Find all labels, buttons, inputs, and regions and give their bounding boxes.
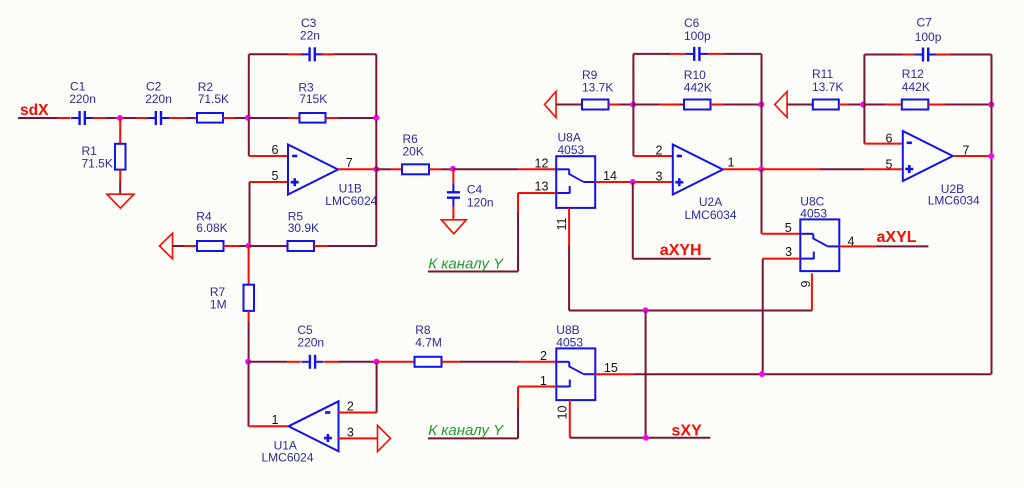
svg-text:14: 14 — [603, 169, 617, 183]
port arrow left of R11 — [775, 92, 787, 118]
wire R7 down to node F — [248, 311, 250, 322]
wire C1 to node A — [93, 117, 106, 119]
svg-text:10: 10 — [556, 406, 570, 420]
svg-text:2: 2 — [656, 144, 663, 158]
wire R10 to node J — [711, 104, 725, 106]
node K junction U2A output/U8C pin5 branch — [758, 166, 764, 172]
wire net sdX from port to C1 — [18, 117, 58, 119]
wire R8 to U8B pin 2 — [442, 361, 461, 363]
wire U1B output pin 7 — [338, 168, 376, 170]
wire node E to R6 — [376, 168, 391, 170]
svg-text:4053: 4053 — [558, 143, 585, 157]
resistor R4 — [197, 241, 224, 251]
wire node D down to R7 — [248, 246, 250, 285]
wire U8C pin 9 down — [811, 273, 813, 310]
wire C4 to ground — [452, 206, 454, 220]
svg-text:LMC6024: LMC6024 — [262, 451, 314, 465]
resistor R7 — [244, 285, 255, 311]
svg-text:3: 3 — [347, 425, 354, 439]
svg-text:К каналу Y: К каналу Y — [428, 422, 504, 439]
wire node B down to pin 6 — [248, 120, 250, 157]
svg-text:5: 5 — [886, 158, 893, 172]
op-amp U2A triangle — [673, 145, 723, 195]
capacitor C5 — [309, 355, 311, 369]
port arrow left of R4 — [160, 233, 173, 259]
wire C5 to node P — [324, 361, 339, 363]
svg-text:71.5K: 71.5K — [198, 92, 229, 106]
wire node C to node E to R5 vertical — [375, 120, 377, 247]
node P junction C5/R8 line/U1A pin2 — [374, 359, 380, 365]
wire node F to C5 — [248, 361, 287, 363]
wire node K down to U8C pin 5 — [761, 169, 763, 234]
capacitor C7 — [922, 48, 924, 62]
svg-text:sXY: sXY — [672, 423, 703, 440]
svg-text:1M: 1M — [210, 297, 227, 311]
resistor R10 — [684, 100, 711, 110]
resistor R2 — [197, 113, 223, 123]
port arrow right of U1A pin 3 — [378, 425, 391, 451]
U1A plus input mark — [324, 437, 332, 440]
wire node L down to sXY line — [645, 311, 647, 438]
node Q junction 15 line / U8C pin3 branch — [759, 371, 765, 377]
port arrow left of R9 — [545, 92, 557, 118]
wire node I to R10 — [633, 104, 659, 106]
wire C3 loop top right — [322, 53, 335, 55]
svg-text:aXYH: aXYH — [660, 242, 702, 259]
capacitor C6 — [693, 47, 695, 61]
svg-text:7: 7 — [963, 144, 970, 158]
wire node B to R3 — [248, 117, 289, 119]
resistor R8 — [415, 357, 442, 367]
svg-text:220n: 220n — [297, 335, 324, 349]
wire sXY line — [570, 437, 711, 439]
wire arrow to R4 — [173, 245, 185, 247]
svg-text:71.5K: 71.5K — [82, 156, 113, 170]
wire R5 to output vertical — [314, 245, 328, 247]
node G junction R6/C4 — [450, 166, 456, 172]
node I junction R9/R10/C6 left — [630, 102, 636, 108]
wire node A to C2 — [124, 117, 136, 119]
node H junction pin14/aXYH — [630, 179, 636, 185]
wire U8A pin 13 to channel Y branch — [518, 192, 556, 194]
wire C6 loop left vertical — [632, 54, 634, 156]
wire right side of C3 loop down to node C — [375, 54, 377, 116]
wire U8A pin 11 down — [568, 208, 570, 246]
svg-text:aXYL: aXYL — [877, 229, 917, 246]
resistor R5 — [288, 241, 315, 251]
wire U8C pin 4 to aXYL — [839, 245, 876, 247]
wire U1A pin 3 to port arrow — [339, 437, 378, 439]
svg-text:715K: 715K — [299, 92, 327, 106]
wire R1 to ground — [119, 170, 121, 182]
svg-text:12: 12 — [535, 157, 549, 171]
svg-text:4053: 4053 — [556, 335, 583, 349]
svg-text:220n: 220n — [145, 92, 172, 106]
wire U8A pin 14 to U2A pin 3 — [595, 181, 673, 183]
wire C7 loop top right — [936, 54, 950, 56]
svg-text:13.7K: 13.7K — [582, 80, 613, 94]
svg-text:3: 3 — [785, 245, 792, 259]
svg-text:1: 1 — [728, 156, 735, 170]
wire U1A pin 2 up to node P — [339, 412, 377, 414]
resistor R1 — [115, 144, 126, 170]
node N junction R12/C7 right — [988, 102, 994, 108]
wire into U2A pin 2 — [633, 155, 672, 157]
svg-text:442K: 442K — [902, 80, 930, 94]
ground below C4 — [441, 220, 466, 234]
resistor R6 — [402, 164, 429, 174]
node E junction U1B output — [373, 166, 379, 172]
node B junction R2/R3/C3/pin6 — [245, 115, 251, 121]
wire U8B pin 10 down — [569, 400, 571, 437]
wire node H down to aXYH — [632, 182, 634, 259]
op-amp U2B triangle — [903, 131, 953, 181]
resistor R11 — [813, 100, 839, 110]
wire arrow to R9 — [556, 104, 582, 106]
wire C6 loop top left — [633, 53, 670, 55]
U1B minus input mark — [292, 155, 297, 158]
U1A minus input mark — [325, 411, 330, 414]
op-amp U1A triangle mirrored — [289, 401, 339, 451]
U2A plus input mark — [675, 181, 683, 184]
svg-text:R12: R12 — [902, 67, 924, 81]
wire node K to U2B pin 5 — [762, 168, 821, 170]
svg-text:U2A: U2A — [699, 195, 722, 209]
wire to net label K kanalu Y lower — [428, 437, 518, 439]
svg-text:6.08K: 6.08K — [196, 221, 227, 235]
wire U2A output pin 1 — [723, 168, 762, 170]
svg-text:22n: 22n — [300, 29, 320, 43]
svg-text:11: 11 — [555, 217, 569, 230]
wire node B up left side of C3 loop — [248, 54, 250, 116]
capacitor C2 — [155, 111, 157, 125]
U2B minus input mark — [907, 142, 912, 145]
wire C7 loop top left — [864, 54, 903, 56]
capacitor C4 — [447, 191, 460, 193]
svg-text:4.7M: 4.7M — [415, 335, 442, 349]
resistor R12 — [902, 100, 929, 110]
svg-text:442K: 442K — [684, 80, 712, 94]
svg-text:5: 5 — [785, 221, 792, 235]
wire U1A output pin 1 to node F vertical — [248, 363, 250, 426]
wire to net label K kanalu Y upper — [428, 271, 518, 273]
node J junction R10/C6 right/U2A out — [758, 102, 764, 108]
ground below R1 — [107, 194, 134, 208]
svg-text:1: 1 — [272, 413, 279, 427]
svg-text:sdX: sdX — [20, 102, 49, 119]
wire U1B pin 5 down to node D — [249, 182, 251, 246]
svg-text:3: 3 — [656, 170, 663, 184]
svg-text:220n: 220n — [69, 92, 96, 106]
wire R11 to node M — [839, 104, 849, 106]
svg-text:5: 5 — [272, 169, 279, 183]
wire C6 loop top right — [708, 53, 725, 55]
resistor R3 — [300, 113, 326, 123]
svg-text:100p: 100p — [684, 29, 711, 43]
wire C6 loop right vertical down to U2A output — [761, 54, 763, 169]
svg-text:13.7K: 13.7K — [812, 80, 843, 94]
svg-text:2: 2 — [347, 400, 354, 414]
svg-text:20K: 20K — [403, 144, 424, 158]
svg-text:7: 7 — [346, 156, 353, 170]
wire U8B pin 1 to channel Y branch — [518, 386, 556, 388]
svg-text:6: 6 — [886, 132, 893, 146]
node A junction C1/C2/R1 — [117, 115, 123, 121]
U2A minus input mark — [677, 155, 682, 158]
wire R6 to node G — [429, 168, 441, 170]
node M junction R11/R12/C7 left — [860, 102, 866, 108]
wire R3 to node C — [326, 117, 339, 119]
op-amp U1B triangle — [288, 145, 338, 195]
svg-text:30.9K: 30.9K — [288, 221, 319, 235]
svg-text:120n: 120n — [467, 196, 494, 210]
wire node G down to C4 — [452, 169, 454, 184]
svg-text:LMC6034: LMC6034 — [685, 208, 737, 222]
svg-text:К каналу Y: К каналу Y — [428, 256, 504, 273]
node L junction bottom bus — [643, 307, 649, 313]
wire R9 to node I — [609, 104, 621, 106]
node F junction R7/C5/U1A pin1 — [245, 359, 251, 365]
wire R12 to node N — [928, 104, 945, 106]
svg-text:C7: C7 — [917, 16, 933, 30]
svg-text:R11: R11 — [812, 67, 833, 81]
wire U2B output pin 7 — [953, 155, 992, 157]
svg-text:C6: C6 — [684, 16, 700, 30]
wire into U1B pin 5 — [250, 181, 289, 183]
node D junction R4/R5/pin5/R7 — [246, 243, 252, 249]
node R junction sXY line — [643, 435, 649, 441]
svg-text:4053: 4053 — [800, 206, 827, 220]
wire into U2B pin 6 — [864, 143, 902, 145]
svg-text:LMC6024: LMC6024 — [325, 194, 377, 208]
switch U8A 4053 box — [556, 156, 595, 208]
wire node A down to R1 — [119, 118, 121, 144]
wire arrow to R11 — [787, 104, 813, 106]
U2B plus input mark — [905, 168, 913, 171]
switch U8C 4053 box — [800, 219, 839, 271]
resistor R9 — [582, 100, 609, 110]
wire node P to R8 — [377, 361, 415, 363]
wire node D to R5 — [249, 245, 288, 247]
switch U8B 4053 box — [556, 348, 595, 400]
wire U8B pin 15 output — [595, 373, 634, 375]
svg-text:15: 15 — [604, 361, 618, 375]
wire C7 loop right vertical down to 15 line — [991, 55, 993, 375]
svg-text:6: 6 — [272, 143, 279, 157]
svg-text:LMC6034: LMC6034 — [928, 194, 980, 208]
wire into U1B pin 6 — [249, 155, 288, 157]
wire C7 loop left vertical — [863, 55, 865, 144]
wire R4 to node D — [224, 245, 240, 247]
U1B plus input mark — [291, 181, 299, 184]
wire bottom bus pin11 to pin9 — [569, 310, 812, 312]
wire node G to U8A pin 12 — [453, 168, 519, 170]
svg-text:C4: C4 — [467, 183, 483, 197]
wire R2 to node B — [223, 117, 235, 119]
svg-text:2: 2 — [540, 349, 547, 363]
svg-text:13: 13 — [535, 180, 549, 194]
node C junction R3/C3/output — [373, 115, 379, 121]
svg-text:100p: 100p — [915, 30, 942, 44]
node O junction U2B output — [988, 153, 994, 159]
wire node M to R12 — [863, 104, 885, 106]
wire under aXYH label — [633, 258, 711, 260]
wire U8C pin 3 branch — [763, 258, 801, 260]
capacitor C1 — [78, 111, 80, 125]
wire C2 to R2 — [169, 117, 186, 119]
capacitor C3 — [308, 47, 310, 61]
wire C3 loop top left — [249, 53, 288, 55]
